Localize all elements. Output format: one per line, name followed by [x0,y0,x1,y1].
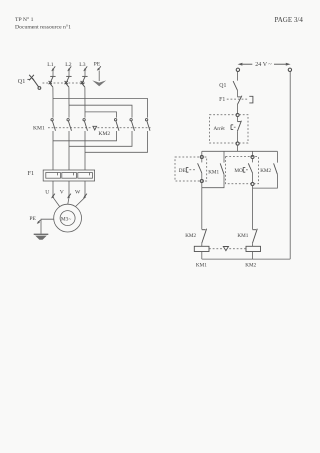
contact stop NC [237,117,241,142]
contact KM1 interlock NC [237,229,257,243]
wire V down [68,181,70,197]
distribution line [202,150,278,152]
svg-text:M3~: M3~ [61,216,71,222]
wire [201,252,203,260]
contactor linkage dashed [48,127,151,129]
wire phase1 to F1 [52,131,54,170]
svg-text:Arrêt: Arrêt [213,126,225,132]
thermal relay F1 [28,170,95,181]
contact KM1 aux [202,151,224,187]
svg-text:DE: DE [179,168,186,174]
wire to distribution [236,145,238,151]
wire L2 down [68,87,70,117]
contact Q1 aux [219,81,237,91]
wire KM2 pole3 out [85,131,148,152]
breaker Q1 pole 2 [65,71,72,87]
svg-text:W: W [75,189,81,195]
wire left branch [201,151,203,155]
wire L3 down [84,87,86,117]
motor feed wires [53,197,60,206]
KM1 pole 2 [67,119,72,131]
breaker Q1 handle [18,75,41,90]
coil KM2 [245,246,260,268]
breaker Q1 pole 1 [49,71,56,87]
svg-text:F1: F1 [219,97,225,103]
right rail wire [289,72,291,259]
wire left rail top [236,72,238,81]
node [236,142,239,145]
motor M1 [54,204,82,232]
KM1 pole 3 [83,119,88,131]
wire [252,252,254,260]
svg-text:KM2: KM2 [245,262,256,268]
wire left to interlock [201,183,203,230]
terminal left [236,68,239,71]
F1 element 3 [78,173,93,179]
F1 element 1 [46,173,61,179]
contactor KM2 marker [93,126,111,137]
button MO box [226,157,259,184]
node [236,113,239,116]
node L3 [79,62,87,71]
svg-text:24 V ~: 24 V ~ [255,62,272,68]
terminal U [45,189,55,198]
KM1 pole 1 [51,119,56,131]
svg-text:V: V [60,189,64,195]
KM2 pole 2 [130,119,135,131]
contact KM2 interlock NC [185,229,206,243]
node [200,179,203,182]
svg-text:PAGE 3/4: PAGE 3/4 [275,16,304,24]
contact KM2 aux [253,151,278,188]
wire phase3 to F1 [84,131,86,170]
PE down arrow [92,71,106,87]
terminal V [60,189,71,198]
terminal W [75,189,87,198]
wire tap L2 to KM2 pole 2 [69,105,132,117]
terminal right [288,68,291,71]
svg-text:KM1: KM1 [208,169,219,175]
24V supply header [238,62,291,68]
node [251,182,254,185]
svg-text:F1: F1 [28,170,35,177]
wire [252,243,254,246]
ground [34,234,49,240]
mechanical interlock [209,247,246,251]
node [251,155,254,158]
svg-text:KM2: KM2 [185,233,196,239]
coil KM1 [194,246,209,268]
contact DE NO [198,159,202,180]
wire right to interlock [252,186,254,230]
node [200,155,203,158]
KM2 pole 3 [145,119,150,131]
wire KM2 pole1 out [53,131,117,141]
svg-text:PE: PE [29,216,36,222]
wire U down [52,181,54,197]
F1 element 2 [62,173,77,179]
PE terminal at motor [29,216,40,224]
wire phase2 to F1 [68,131,70,170]
KM2 pole 1 [114,119,119,131]
wire PE to motor [41,219,54,234]
wire tap L1 to KM2 pole 3 [53,99,148,118]
svg-text:PE: PE [94,62,101,68]
contact MO NO [248,159,252,183]
svg-text:MO: MO [234,168,243,174]
svg-text:KM2: KM2 [98,131,110,137]
wire right branch [252,151,254,155]
node PE [94,62,101,71]
svg-text:Document ressource n°1: Document ressource n°1 [15,24,71,31]
breaker Q1 pole 3 [81,71,88,87]
svg-text:Q1: Q1 [219,83,226,89]
svg-text:KM1: KM1 [196,262,207,268]
bottom return wire [202,258,290,260]
wire [236,91,238,97]
svg-text:L3: L3 [79,62,85,68]
contact F1 [219,96,253,105]
node L2 [65,62,71,71]
breaker linkage [43,82,87,84]
wire KM2 pole2 out [69,131,132,146]
svg-text:L1: L1 [47,62,53,68]
wire tap L3 to KM2 pole 1 [85,112,117,118]
svg-text:Q1: Q1 [18,78,26,85]
wire W down [84,181,86,197]
svg-text:KM2: KM2 [260,168,271,174]
button DE box [175,157,207,181]
wire [201,243,203,246]
svg-text:KM1: KM1 [33,126,45,132]
svg-text:U: U [45,189,49,195]
svg-text:TP N° 1: TP N° 1 [15,16,34,23]
wire L1 down [52,87,54,117]
node L1 [47,62,55,71]
stop button box Arret [210,115,249,143]
svg-text:KM1: KM1 [237,233,248,239]
wire [236,105,238,114]
